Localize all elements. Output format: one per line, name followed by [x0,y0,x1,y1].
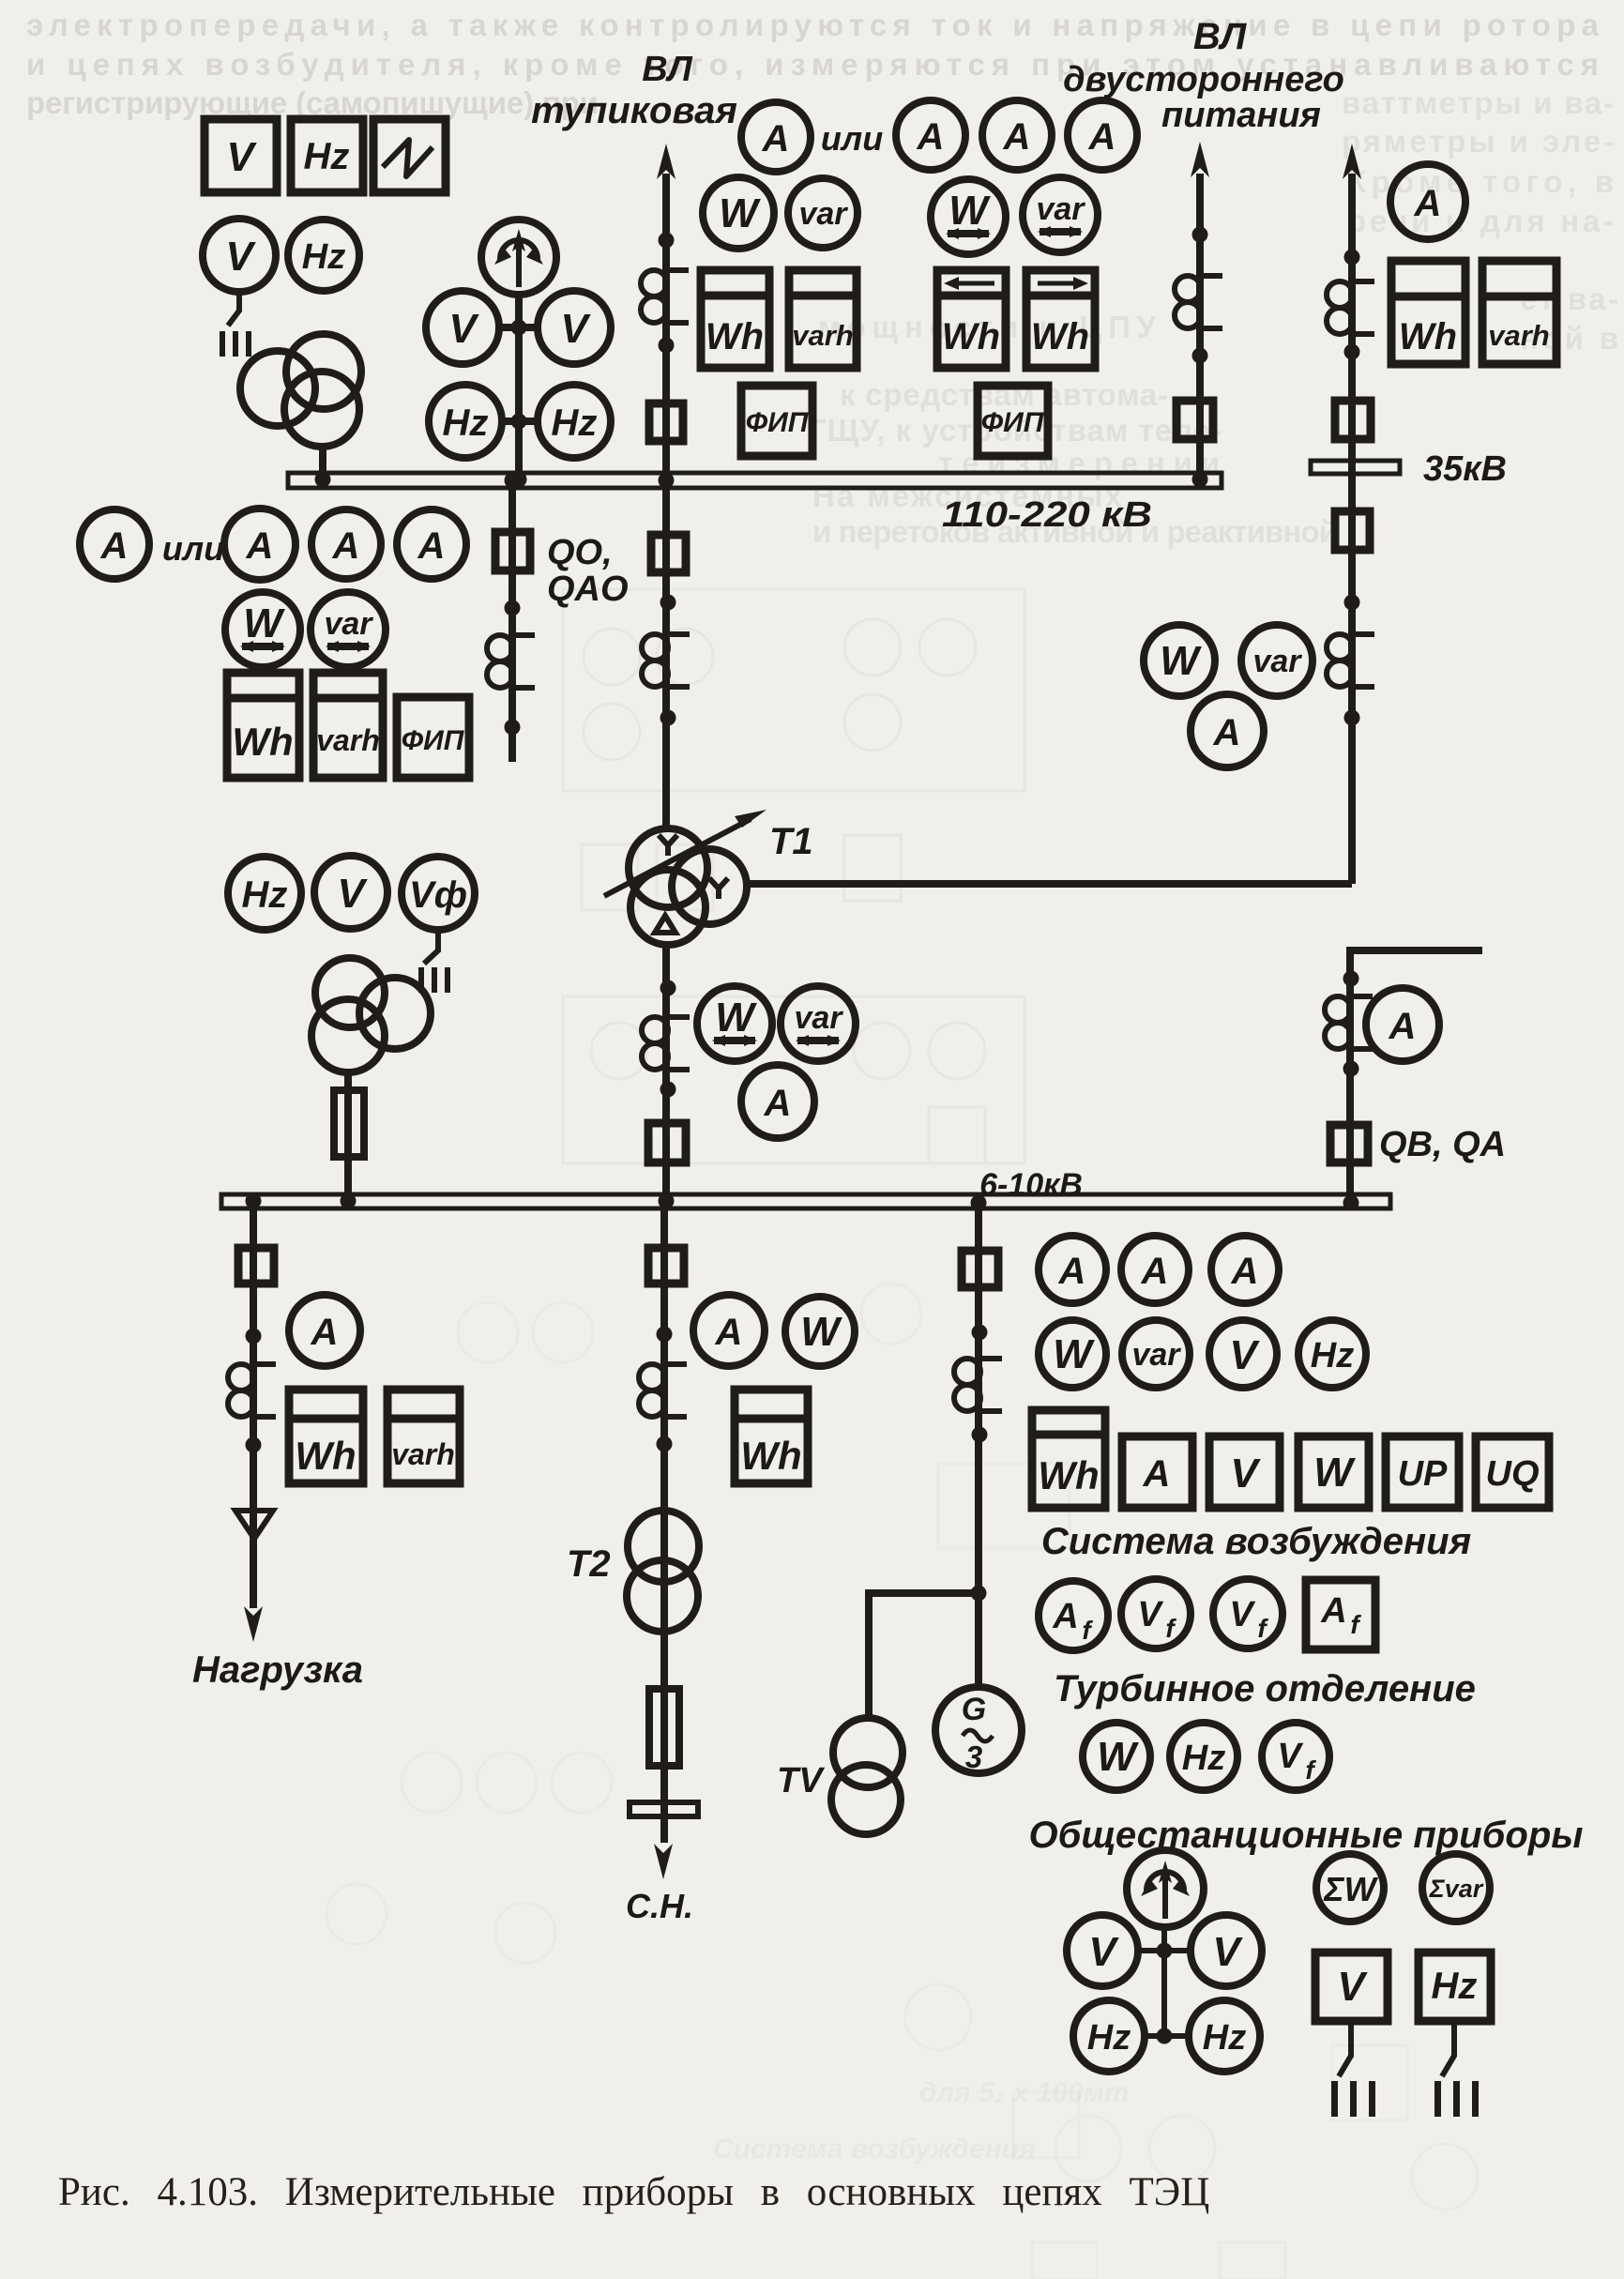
svg-text:ВЛ: ВЛ [1193,16,1248,57]
svg-text:var: var [798,196,848,232]
svg-text:ФИП: ФИП [981,407,1045,438]
svg-text:Wh: Wh [1031,316,1089,357]
svg-text:A: A [1141,1251,1169,1292]
svg-text:A: A [311,1312,339,1353]
svg-text:V: V [1277,1737,1303,1776]
svg-text:или: или [821,119,883,158]
svg-text:T1: T1 [769,821,813,862]
svg-text:W: W [719,190,761,236]
svg-text:35кВ: 35кВ [1423,449,1507,489]
svg-text:Wh: Wh [1038,1453,1099,1497]
svg-text:Hz: Hz [302,237,345,277]
svg-text:Hz: Hz [1087,2018,1131,2058]
svg-text:A: A [100,525,129,567]
svg-text:речи и для на-: речи и для на- [1347,204,1614,238]
svg-text:V: V [1230,1451,1261,1497]
svg-text:Кроме того, в: Кроме того, в [1347,164,1614,199]
svg-text:W: W [1097,1734,1139,1780]
svg-text:varh: varh [792,319,853,352]
svg-text:питания: питания [1161,96,1321,135]
svg-text:W: W [1053,1331,1095,1377]
svg-text:varh: varh [391,1437,455,1471]
svg-text:A: A [1389,1006,1417,1047]
svg-text:V: V [337,871,368,917]
svg-text:f: f [1082,1616,1093,1645]
svg-text:var: var [1131,1337,1181,1373]
svg-text:A: A [762,118,790,160]
svg-text:Общестанционные приборы: Общестанционные приборы [1029,1815,1584,1856]
svg-text:W: W [243,600,285,646]
svg-text:Система возбуждения: Система возбуждения [1041,1521,1471,1562]
svg-text:110-220 кВ: 110-220 кВ [942,495,1152,535]
svg-text:A: A [1058,1251,1086,1292]
svg-text:Wh: Wh [942,316,1000,357]
svg-text:A: A [246,525,274,567]
svg-text:A: A [1320,1591,1346,1631]
svg-text:var: var [324,606,373,642]
svg-text:QAO: QAO [547,570,629,609]
svg-text:varh: varh [1488,319,1549,352]
svg-text:Hz: Hz [304,136,350,177]
svg-text:Hz: Hz [1203,2018,1246,2058]
svg-text:var: var [1036,191,1085,227]
svg-text:и цепях возбудителя, кроме: и цепях возбудителя, кроме того, измеряю… [26,47,1599,82]
svg-text:A: A [1052,1597,1078,1636]
svg-text:f: f [1350,1610,1361,1639]
svg-text:varh: varh [316,723,380,757]
svg-text:UQ: UQ [1486,1454,1540,1494]
svg-text:A: A [417,525,446,567]
svg-text:QB, QA: QB, QA [1379,1125,1506,1164]
svg-text:A: A [1003,116,1031,158]
svg-text:QO,: QO, [547,533,613,572]
svg-text:С.Н.: С.Н. [626,1887,693,1925]
svg-text:3: 3 [965,1740,982,1774]
svg-text:V: V [1229,1332,1260,1378]
svg-text:T2: T2 [567,1543,611,1585]
svg-text:Hz: Hz [1432,1966,1478,2007]
svg-text:электропередачи, а также ко: электропередачи, а также контролируются … [26,8,1600,42]
svg-text:UP: UP [1398,1454,1448,1494]
svg-text:6-10кВ: 6-10кВ [979,1167,1083,1203]
svg-text:Wh: Wh [1399,316,1457,357]
svg-text:Wh: Wh [295,1434,356,1478]
svg-text:ВЛ: ВЛ [642,50,692,89]
svg-text:ваттметры и ва-: ваттметры и ва- [1342,85,1614,120]
svg-text:ФИП: ФИП [746,407,810,438]
svg-text:ФИП: ФИП [402,725,465,756]
svg-text:var: var [1252,644,1302,679]
svg-text:A: A [1088,116,1116,158]
svg-text:регистрирующие (самопишущие): регистрирующие (самопишущие) при [26,85,599,120]
svg-text:Hz: Hz [1311,1336,1354,1375]
svg-text:или: или [162,529,224,568]
svg-text:Hz: Hz [1182,1739,1225,1778]
svg-text:V: V [226,134,257,180]
svg-text:ΣW: ΣW [1323,1870,1378,1908]
svg-text:V: V [1337,1964,1368,2010]
svg-text:V: V [225,234,256,280]
svg-text:W: W [949,188,991,234]
svg-text:TV: TV [777,1761,825,1800]
svg-text:A: A [1213,712,1241,753]
svg-text:V: V [1229,1595,1255,1634]
svg-text:V: V [448,306,479,352]
svg-text:Нагрузка: Нагрузка [192,1649,363,1691]
svg-text:Hz: Hz [242,874,288,916]
svg-text:двустороннего: двустороннего [1063,60,1344,99]
svg-text:A: A [1414,183,1442,224]
svg-text:A: A [715,1312,743,1353]
svg-text:V: V [1137,1595,1163,1634]
svg-text:V: V [1088,1929,1119,1975]
svg-text:Wh: Wh [232,720,293,764]
svg-text:Турбинное отделение: Турбинное отделение [1054,1668,1476,1709]
svg-text:W: W [1313,1450,1356,1496]
svg-text:A: A [332,525,360,567]
svg-text:ряметры и эле-: ряметры и эле- [1342,124,1614,159]
svg-text:Wh: Wh [706,316,764,357]
svg-text:тупиковая: тупиковая [531,90,737,131]
svg-text:Wh: Wh [740,1434,801,1478]
svg-text:для 5₂ х 100мт: для 5₂ х 100мт [919,2077,1130,2108]
svg-text:A: A [764,1083,792,1124]
svg-text:A: A [1143,1453,1171,1495]
svg-text:Hz: Hz [443,403,489,444]
svg-text:W: W [800,1309,842,1355]
svg-text:Vф: Vф [409,874,467,916]
svg-text:var: var [794,1000,843,1036]
svg-text:A: A [1231,1251,1259,1292]
svg-text:A: A [917,116,945,158]
svg-text:Система возбуждения: Система возбуждения [713,2134,1036,2165]
svg-text:Σvar: Σvar [1429,1875,1484,1903]
svg-text:V: V [1212,1929,1243,1975]
svg-text:V: V [560,306,591,352]
svg-text:W: W [1160,638,1202,684]
svg-text:G: G [962,1692,986,1727]
svg-text:Рис. 4.103. Измерительные приб: Рис. 4.103. Измерительные приборы в осно… [58,2170,1209,2214]
svg-text:W: W [715,995,757,1041]
svg-text:Hz: Hz [552,403,598,444]
